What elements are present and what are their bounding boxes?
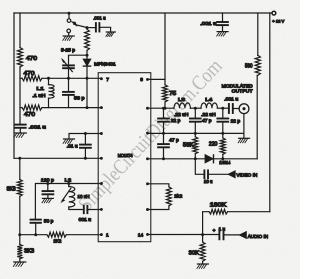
svg-text:5-25 p: 5-25 p <box>61 48 75 54</box>
svg-text:56K: 56K <box>183 143 194 149</box>
svg-text:.01 u: .01 u <box>67 144 78 149</box>
svg-text:MPN3401: MPN3401 <box>94 61 116 66</box>
svg-text:2k2: 2k2 <box>174 193 182 199</box>
svg-text:3K3: 3K3 <box>24 248 34 254</box>
svg-text:10 uH: 10 uH <box>78 194 90 199</box>
svg-text:470: 470 <box>26 56 37 62</box>
svg-text:.22 uH: .22 uH <box>201 112 216 117</box>
svg-text:.001 u: .001 u <box>29 124 47 129</box>
svg-text:2K2: 2K2 <box>53 238 61 244</box>
svg-text:22 p: 22 p <box>171 118 181 123</box>
svg-text:.001 u: .001 u <box>200 21 216 26</box>
svg-text:10 u: 10 u <box>204 179 213 184</box>
svg-text:001 u: 001 u <box>79 217 92 222</box>
svg-text:+ 12 V: + 12 V <box>272 18 284 23</box>
svg-text:47 p: 47 p <box>169 138 179 143</box>
svg-text:50 p: 50 p <box>44 219 54 224</box>
svg-text:MC1374: MC1374 <box>118 153 133 158</box>
svg-text:560: 560 <box>245 63 253 69</box>
svg-text:22 p: 22 p <box>231 119 241 124</box>
svg-text:220: 220 <box>209 142 218 148</box>
svg-text:1N914: 1N914 <box>219 160 230 165</box>
svg-text:7: 7 <box>106 77 109 83</box>
svg-text:.1 uH: .1 uH <box>32 93 45 98</box>
svg-text:1: 1 <box>106 233 109 239</box>
svg-text:47 p: 47 p <box>202 118 212 123</box>
svg-text:8: 8 <box>140 77 143 83</box>
svg-text:L1: L1 <box>37 86 45 92</box>
svg-text:.22 uH: .22 uH <box>174 112 189 117</box>
svg-text:L3: L3 <box>178 97 185 103</box>
svg-text:180K: 180K <box>210 203 227 209</box>
svg-text:1 u: 1 u <box>219 226 226 231</box>
svg-text:MODULATED: MODULATED <box>222 83 254 89</box>
svg-text:470: 470 <box>24 112 35 118</box>
svg-text:14: 14 <box>138 233 144 239</box>
svg-text:OUTPUT: OUTPUT <box>232 88 253 94</box>
svg-text:8K8: 8K8 <box>7 186 16 192</box>
svg-text:+: + <box>213 229 216 234</box>
svg-text:56 p: 56 p <box>74 95 85 101</box>
svg-text:30K: 30K <box>189 251 200 257</box>
svg-text:75: 75 <box>169 91 176 97</box>
svg-text:VIDEO IN: VIDEO IN <box>236 172 258 178</box>
svg-text:.001 u: .001 u <box>224 96 238 101</box>
svg-text:470: 470 <box>24 71 35 77</box>
svg-text:L2: L2 <box>65 178 72 184</box>
svg-text:AUDIO IN: AUDIO IN <box>248 234 269 240</box>
svg-text:.001 u: .001 u <box>93 16 106 22</box>
svg-text:L4: L4 <box>205 97 212 103</box>
